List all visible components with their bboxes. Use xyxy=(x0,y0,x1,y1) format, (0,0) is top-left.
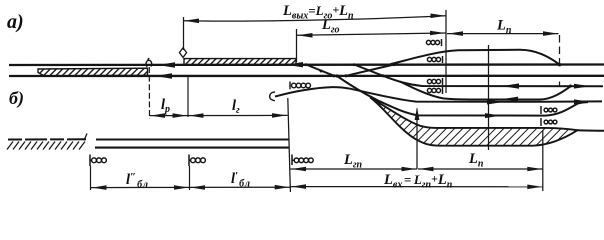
wire main track II (lower main line) xyxy=(9,75,604,77)
extension line for L_go left xyxy=(296,29,298,62)
signal group 3 (park a) xyxy=(427,78,442,85)
signal 2 mast (b) xyxy=(189,155,191,167)
hatched siding band right (platform strip) xyxy=(184,59,296,65)
arrow left on track II xyxy=(155,73,172,78)
turnout crossover D xyxy=(346,65,394,76)
extension l_r / l_g boundary xyxy=(187,77,189,117)
track b lower line xyxy=(95,147,290,149)
bumper diamond on track I end xyxy=(146,58,152,67)
L_vh left arrowhead xyxy=(292,184,307,189)
signal mast bar (throat) xyxy=(289,82,291,90)
signal 2 lamps (b) xyxy=(191,158,206,163)
signal group top (park a) xyxy=(426,39,441,46)
top station track T1 xyxy=(390,50,560,65)
extension line from diamond up xyxy=(183,17,185,50)
l_g left arrowhead xyxy=(189,113,204,118)
extension line park b end (x=542.8) xyxy=(542,130,544,191)
arrowhead at T5 merge xyxy=(574,84,590,89)
track line from signal to lower park (E) xyxy=(275,87,602,102)
L_p park b right arrowhead xyxy=(527,167,542,172)
dimension L_vyh line xyxy=(184,16,446,21)
exit signal B (park b right) xyxy=(541,118,557,126)
up arrowhead at park b start xyxy=(415,108,420,121)
signal 1 lamps (b) xyxy=(92,158,107,163)
L_vh right arrowhead xyxy=(527,185,542,190)
signal group 4 (park a) xyxy=(427,87,442,94)
shunting signal with hook (left of throat) xyxy=(270,92,275,101)
l'bl right arrowhead xyxy=(275,185,290,190)
arrow right on line E (2) xyxy=(574,99,590,104)
L_gp right arrowhead xyxy=(402,167,417,172)
L_p park b left arrowhead xyxy=(419,167,434,172)
dimension l_r l_g line xyxy=(150,114,288,116)
dimension L_p left arrowhead xyxy=(448,31,463,36)
dimension L_go right arrowhead xyxy=(430,31,445,36)
arrow right on line F xyxy=(485,113,501,118)
signal lamps (throat) xyxy=(292,83,311,88)
wire main track I (upper main line) xyxy=(9,63,604,66)
signal 1 mast (b) xyxy=(90,155,92,167)
turnout crossover A xyxy=(306,65,334,76)
approach embankment line (dashed) xyxy=(8,138,86,140)
dimension l''bl l'bl line xyxy=(91,186,290,188)
dimension L_vh line xyxy=(291,186,543,188)
dimension L_gp line xyxy=(291,168,418,170)
track b upper line xyxy=(96,138,289,140)
dimension L_go left arrowhead xyxy=(298,33,313,38)
station axis line (x=488.5) xyxy=(488,45,490,150)
extension line station end (x=446) xyxy=(445,10,447,93)
exit signal A (park b right) xyxy=(541,106,557,114)
l'bl left arrowhead xyxy=(191,185,206,190)
dimension L_p (park a) line xyxy=(447,33,559,35)
dimension L_p (park b) line xyxy=(418,168,543,170)
embankment hatch strokes xyxy=(7,142,85,150)
signal 3 lamps (entrance) xyxy=(294,158,313,163)
diamond marker at band end xyxy=(179,48,186,58)
extension from bumper down xyxy=(148,67,150,119)
extension line station entrance (x=288-290) xyxy=(288,98,291,192)
lower park hatched body xyxy=(370,97,578,145)
branch track F (second lower-park line) xyxy=(337,76,588,116)
arrow right on line E (1) xyxy=(487,100,503,105)
svg-text:а): а) xyxy=(7,11,24,33)
junction dots xyxy=(305,63,572,88)
l''bl left arrowhead xyxy=(92,185,107,190)
signal group 2 (park a) xyxy=(427,56,442,63)
l''bl right arrowhead xyxy=(174,185,189,190)
arrow left on T4 xyxy=(502,83,519,88)
station track T4 xyxy=(383,76,603,87)
arrow left on T5 xyxy=(501,97,518,102)
extension line park b start (x=417) xyxy=(416,109,418,170)
L_gp left arrowhead xyxy=(292,167,307,172)
arrow left on track I xyxy=(158,62,175,67)
dimension L_vyh right arrowhead xyxy=(431,14,446,19)
svg-text:б): б) xyxy=(9,88,24,109)
l_r right arrowhead xyxy=(173,113,188,118)
dimension L_vyh left arrowhead xyxy=(184,19,199,24)
dimension L_go line xyxy=(297,33,447,35)
gradient break tick xyxy=(84,134,87,141)
l_g right arrowhead xyxy=(272,113,287,118)
station track T5 (loop) xyxy=(400,82,571,100)
dimension L_p right arrowhead xyxy=(543,31,558,36)
l_r left arrowhead xyxy=(151,113,166,118)
arrow left on track I at throat xyxy=(286,62,303,67)
track to right from lower park tip xyxy=(578,129,604,132)
dashed boundary line right end of L_p xyxy=(559,35,561,86)
turnout crossover C xyxy=(354,65,383,76)
signal 3 mast (entrance) xyxy=(292,155,294,166)
hatched siding band left (removed track) xyxy=(38,68,148,76)
